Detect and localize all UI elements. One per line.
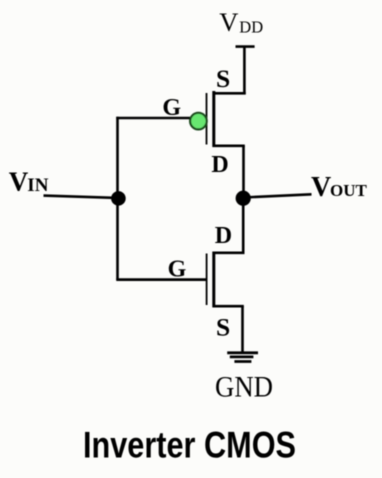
svg-text:IN: IN (27, 175, 48, 196)
transistor Q2 NMOS (207, 252, 245, 308)
input label VIN (9, 167, 49, 197)
svg-text:V: V (219, 7, 238, 37)
svg-text:S: S (216, 64, 230, 93)
svg-text:S: S (216, 312, 230, 341)
wire output node to VOUT (243, 194, 312, 197)
wire input branch vertical (116, 117, 119, 280)
svg-text:DD: DD (239, 18, 263, 37)
svg-text:Inverter CMOS: Inverter CMOS (83, 425, 296, 466)
svg-text:V: V (9, 167, 29, 197)
output label VOUT (311, 172, 368, 203)
svg-text:OUT: OUT (330, 181, 368, 200)
wire VIN to input node (44, 196, 118, 198)
node output junction (236, 191, 251, 206)
svg-text:V: V (311, 172, 331, 203)
svg-text:D: D (211, 152, 228, 178)
PMOS gate bubble (190, 113, 207, 130)
wire output node to NMOS drain (242, 198, 245, 253)
svg-text:GND: GND (215, 371, 273, 404)
net VDD label (219, 7, 263, 37)
power rail VDD stub (236, 45, 255, 48)
wire PMOS drain to output node (242, 146, 245, 198)
wire PMOS gate to input branch (116, 117, 190, 120)
svg-text:D: D (215, 223, 232, 249)
transistor Q1 PMOS (207, 91, 246, 147)
ground (227, 353, 258, 362)
node input junction (111, 191, 126, 206)
wire VDD to PMOS source (243, 47, 246, 95)
wire NMOS gate to input branch (116, 278, 206, 281)
wire NMOS source to ground (241, 306, 244, 353)
